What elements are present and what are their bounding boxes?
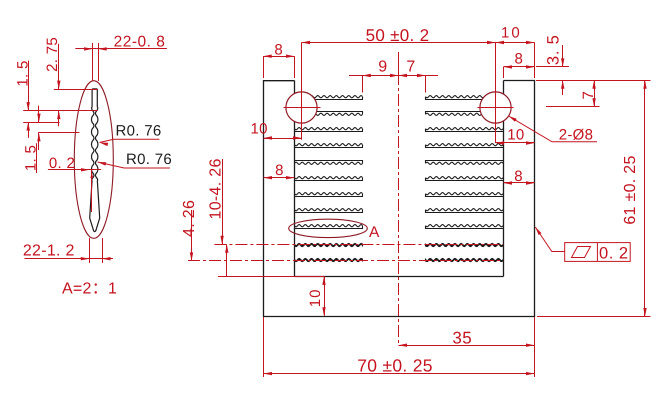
svg-text:10: 10	[307, 289, 324, 308]
fin R4	[426, 144, 504, 146]
leader 2-O8	[509, 116, 598, 142]
svg-text:8: 8	[514, 51, 523, 68]
svg-text:70 ±0. 25: 70 ±0. 25	[357, 356, 433, 376]
svg-text:8: 8	[274, 41, 283, 58]
dimension 10 base	[218, 276, 324, 278]
svg-text:0. 2: 0. 2	[49, 155, 75, 172]
svg-text:4. 26: 4. 26	[181, 200, 198, 237]
fin L10	[295, 243, 363, 245]
svg-text:A=2：1: A=2：1	[62, 281, 117, 298]
fin L1	[295, 96, 363, 98]
svg-text:35: 35	[452, 329, 472, 348]
svg-text:10: 10	[501, 25, 522, 42]
svg-text:2. 75: 2. 75	[44, 37, 61, 72]
dimension 0.2 detail	[48, 169, 101, 171]
fin L8	[295, 209, 363, 211]
dimension 50+-0.2	[302, 42, 535, 44]
dimension 8 top left	[263, 56, 294, 58]
fin L4	[295, 144, 363, 146]
crosshair left hole	[284, 107, 321, 109]
fin R11	[426, 258, 504, 260]
dimension 70+-0.25	[264, 373, 535, 375]
leader R0.76 lower	[98, 162, 170, 168]
hole left 2-O8	[286, 92, 317, 123]
svg-text:3. 5: 3. 5	[545, 34, 563, 65]
svg-text:22-1. 2: 22-1. 2	[23, 243, 75, 260]
svg-text:R0. 76: R0. 76	[126, 151, 172, 168]
fin L6	[295, 177, 363, 179]
svg-text:10: 10	[250, 121, 267, 138]
svg-text:10: 10	[507, 127, 524, 144]
dimension 9	[349, 75, 438, 77]
svg-text:1. 5: 1. 5	[15, 60, 32, 86]
dimension 22-1.2	[24, 258, 113, 260]
fin R8	[426, 209, 504, 211]
dimension 1.5 upper	[28, 87, 30, 111]
dimension 8 top right	[504, 66, 535, 68]
dimension 7	[399, 74, 408, 77]
svg-text:9: 9	[378, 58, 387, 75]
centerline fin10	[214, 244, 503, 246]
dimension 8 right	[504, 182, 535, 184]
svg-text:10-4. 26: 10-4. 26	[208, 158, 225, 219]
detail A fin profile	[90, 89, 100, 232]
hole right 2-O8	[480, 92, 511, 123]
centerline vertical	[398, 52, 400, 345]
leader R0.76 upper	[100, 139, 160, 142]
dimension 10-4.26	[222, 159, 224, 244]
svg-text:61 ±0. 25: 61 ±0. 25	[622, 155, 639, 224]
dimension 1.5 lower	[38, 106, 40, 123]
fin R1	[426, 96, 504, 98]
flatness tolerance frame	[535, 227, 630, 261]
fin R2	[426, 113, 504, 115]
dimension 10 right	[496, 142, 535, 144]
fin L11	[295, 258, 363, 260]
fin R9	[426, 225, 504, 227]
fin R10	[426, 243, 504, 245]
callout ellipse A	[289, 219, 368, 237]
svg-text:7: 7	[580, 91, 597, 100]
svg-text:8: 8	[275, 162, 284, 179]
dimension 3.5	[562, 45, 564, 67]
fin R7	[426, 193, 504, 195]
svg-text:2-Ø8: 2-Ø8	[559, 126, 594, 143]
fin R5	[426, 162, 504, 164]
svg-text:7: 7	[406, 58, 415, 75]
svg-text:A: A	[369, 224, 380, 241]
dimension 35	[399, 345, 535, 347]
dimension 8 left	[264, 177, 295, 179]
dimension 7 right	[594, 80, 596, 106]
detail A boundary ellipse	[74, 81, 113, 239]
fin L2	[295, 113, 363, 115]
crosshair right hole	[478, 107, 514, 109]
svg-text:22-0. 8: 22-0. 8	[114, 33, 166, 50]
centerline fin11	[188, 260, 503, 262]
svg-text:0. 2: 0. 2	[599, 244, 629, 262]
fin L7	[295, 193, 363, 195]
dimension 61+-0.25	[644, 80, 646, 316]
svg-text:8: 8	[514, 168, 523, 185]
heatsink body outline	[264, 81, 535, 317]
dimension 10 top right	[496, 41, 505, 44]
svg-text:50 ±0. 2: 50 ±0. 2	[366, 26, 430, 45]
dimension 10 left	[264, 138, 302, 140]
dimension 4.26	[191, 210, 193, 261]
fin L5	[295, 162, 363, 164]
svg-text:R0. 76: R0. 76	[116, 122, 162, 139]
dimension 22-0.8	[75, 48, 167, 50]
dimension 2.75	[58, 44, 60, 89]
fin L9	[295, 225, 363, 227]
fin L3	[295, 128, 363, 130]
fin R3	[426, 128, 504, 130]
fin R6	[426, 177, 504, 179]
